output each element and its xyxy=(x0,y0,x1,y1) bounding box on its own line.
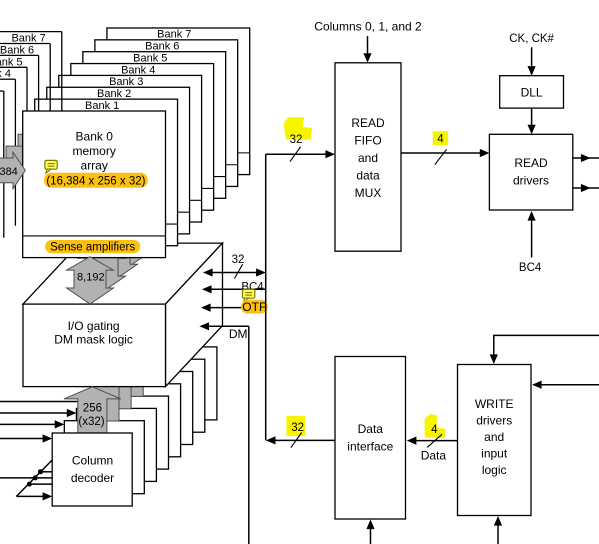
memory bank box Bank 5 xyxy=(83,52,226,199)
column decoder stack box bank 5 xyxy=(113,372,193,445)
svg-text:32: 32 xyxy=(290,134,303,146)
column decoder box bank0 xyxy=(52,433,132,506)
wire bottom into Data interface xyxy=(370,528,372,544)
bus 32 vertical xyxy=(265,154,267,440)
svg-text:memory: memory xyxy=(73,144,116,158)
row bus arrow 16,384 bank0 xyxy=(0,152,25,188)
DLL box xyxy=(500,76,564,108)
svg-text:Data: Data xyxy=(358,422,384,436)
wire CK into DLL xyxy=(531,47,533,67)
I/O gating front face xyxy=(23,304,166,387)
junction dot C xyxy=(27,482,32,487)
junction dot A xyxy=(38,469,43,474)
bus arrow 256 bank3 (partial) xyxy=(100,350,157,397)
svg-text:DM mask logic: DM mask logic xyxy=(54,333,133,347)
svg-text:Column: Column xyxy=(72,454,113,468)
sense amp bus arrow 8192 bank0 xyxy=(67,257,114,304)
wire top into WRITE drivers xyxy=(494,334,599,336)
wire BC4 into READ drivers xyxy=(531,220,533,258)
highlight OTF xyxy=(241,300,268,314)
svg-text:(x32): (x32) xyxy=(78,416,104,428)
row bus arrow bank2 (partial) xyxy=(18,128,49,164)
wire column address into decoder bank1 xyxy=(0,423,55,425)
wire DM into I/O gating xyxy=(207,325,248,327)
svg-text:data: data xyxy=(356,169,380,183)
svg-text:256: 256 xyxy=(83,403,102,415)
bus 32 double arrow xyxy=(211,272,257,274)
svg-text:Bank 3: Bank 3 xyxy=(109,76,143,88)
wire OTF into I/O gating xyxy=(209,307,266,309)
svg-text:Bank 4: Bank 4 xyxy=(121,64,155,76)
svg-text:DM: DM xyxy=(229,327,248,341)
svg-text:DLL: DLL xyxy=(521,85,543,99)
left stack box edge Bank 7 xyxy=(0,31,62,33)
column decoder stack box bank 2 xyxy=(76,408,156,481)
row bus arrow bank1 (partial) xyxy=(6,140,37,176)
svg-text:Columns 0, 1, and 2: Columns 0, 1, and 2 xyxy=(314,20,422,34)
I/O gating top face xyxy=(23,243,223,304)
svg-text:CK, CK#: CK, CK# xyxy=(509,33,554,45)
wire WRITE to Data interface xyxy=(416,440,458,442)
column decoder stack box bank 4 xyxy=(101,384,181,457)
sense amp bus arrow 8192 bank 3 (partial) xyxy=(103,221,150,268)
wire tap upper xyxy=(40,471,52,473)
slash 32 bottom xyxy=(291,433,302,448)
svg-text:Sense amplifiers: Sense amplifiers xyxy=(50,242,135,254)
svg-text:drivers: drivers xyxy=(513,174,549,188)
svg-text:WRITE: WRITE xyxy=(475,397,514,411)
svg-text:and: and xyxy=(484,430,504,444)
svg-text:array: array xyxy=(81,158,108,172)
comment icon bank0 xyxy=(45,160,57,169)
svg-text:(16,384 x 256 x 32): (16,384 x 256 x 32) xyxy=(46,176,145,188)
slash 4 top xyxy=(435,149,447,164)
svg-text:Bank 5: Bank 5 xyxy=(133,52,167,64)
svg-text:BC4: BC4 xyxy=(519,262,542,274)
svg-text:READ: READ xyxy=(514,156,548,170)
highlight 4 top xyxy=(433,131,448,145)
sense amp bus arrow 8192 bank 2 (partial) xyxy=(91,233,138,280)
memory bank box Bank 7 xyxy=(107,28,250,175)
svg-text:drivers: drivers xyxy=(476,414,512,428)
junction dot B xyxy=(33,475,38,480)
svg-text:input: input xyxy=(481,447,508,461)
svg-text:8,192: 8,192 xyxy=(77,272,105,284)
wire tap middle xyxy=(29,483,52,485)
flag highlight 32 top xyxy=(284,117,313,139)
svg-text:logic: logic xyxy=(482,463,507,477)
slash 32 left xyxy=(234,264,242,278)
READ drivers box xyxy=(489,134,572,210)
bus arrow 256 bank1 (partial) xyxy=(76,375,133,422)
svg-text:Bank 4: Bank 4 xyxy=(0,68,11,80)
sense amp bus arrow 8192 bank 1 (partial) xyxy=(79,245,126,292)
svg-text:Bank 6: Bank 6 xyxy=(0,44,34,56)
wire column address into decoder bank0 xyxy=(0,438,43,440)
flag highlight 4 data xyxy=(425,414,447,438)
left stack box edge Bank 5 xyxy=(0,54,39,56)
svg-text:decoder: decoder xyxy=(71,471,114,485)
left stack box edge Bank 3 xyxy=(0,78,15,80)
memory bank box Bank 6 xyxy=(95,40,238,187)
WRITE drivers box xyxy=(458,365,532,516)
wire DLL to READ drivers xyxy=(531,108,533,125)
slash 32 top xyxy=(290,147,301,162)
svg-text:16,384: 16,384 xyxy=(0,166,18,178)
column decoder stack box bank 7 xyxy=(137,347,217,420)
wire right into WRITE drivers xyxy=(541,384,599,386)
wire column address in xyxy=(0,477,52,479)
column decoder stack box bank 6 xyxy=(125,359,205,432)
I/O gating right face xyxy=(166,243,223,387)
highlight 32 bottom xyxy=(286,416,305,436)
highlight sense amplifiers xyxy=(45,240,140,253)
svg-text:READ: READ xyxy=(351,116,385,130)
wire READ drivers out lower xyxy=(573,187,599,189)
wire DM vertical xyxy=(248,326,250,544)
svg-text:MUX: MUX xyxy=(355,186,382,200)
wire READ FIFO to READ drivers xyxy=(401,152,480,154)
memory bank box Bank 3 xyxy=(59,75,202,222)
svg-text:32: 32 xyxy=(291,422,304,434)
wire column address into decoder bank2 xyxy=(0,412,67,414)
wire bottom into WRITE drivers xyxy=(497,525,499,544)
READ FIFO box xyxy=(335,63,401,251)
svg-text:Data: Data xyxy=(421,449,447,463)
svg-text:Bank 5: Bank 5 xyxy=(0,56,23,68)
memory bank box Bank 4 xyxy=(71,64,214,211)
svg-text:Bank 2: Bank 2 xyxy=(97,88,131,100)
svg-text:I/O gating: I/O gating xyxy=(68,319,120,333)
wire column address into decoder bank3 xyxy=(0,401,89,403)
svg-text:interface: interface xyxy=(347,440,393,454)
svg-text:FIFO: FIFO xyxy=(354,134,381,148)
highlight 16384 size xyxy=(44,173,148,188)
wire Data interface to bus xyxy=(274,439,335,441)
bus arrow 256 bank2 (partial) xyxy=(88,362,145,409)
bus arrow 256 bank0 xyxy=(64,387,121,434)
svg-text:4: 4 xyxy=(431,424,438,436)
svg-text:4: 4 xyxy=(437,134,444,146)
left stack box edge Bank 6 xyxy=(0,43,50,45)
wire bus to READ FIFO xyxy=(266,153,326,155)
memory bank box Bank 0 xyxy=(23,111,166,258)
memory bank box Bank 2 xyxy=(47,87,190,234)
slash 4 data xyxy=(427,434,442,447)
svg-text:Bank 0: Bank 0 xyxy=(76,129,114,143)
svg-text:OTF: OTF xyxy=(242,300,266,314)
wire BC4 into I/O gating xyxy=(210,288,266,290)
svg-text:Bank 1: Bank 1 xyxy=(85,100,119,112)
left stack box edge Bank 2 xyxy=(0,90,4,92)
Data interface box xyxy=(335,357,406,520)
svg-text:Bank 7: Bank 7 xyxy=(11,33,45,45)
wire tap lower into column decoder xyxy=(16,495,43,497)
comment icon BC4 xyxy=(243,289,255,298)
column decoder stack box bank 3 xyxy=(89,396,169,469)
left stack box edge Bank 4 xyxy=(0,66,27,68)
svg-text:Bank 7: Bank 7 xyxy=(157,29,191,41)
svg-text:Bank 6: Bank 6 xyxy=(145,41,179,53)
svg-text:and: and xyxy=(358,151,378,165)
memory bank box Bank 1 xyxy=(35,99,178,246)
wire columns into READ FIFO xyxy=(367,36,369,54)
wire READ drivers out upper xyxy=(573,157,599,159)
wire column address diagonal xyxy=(16,460,52,497)
column decoder stack box bank 1 xyxy=(64,421,144,494)
